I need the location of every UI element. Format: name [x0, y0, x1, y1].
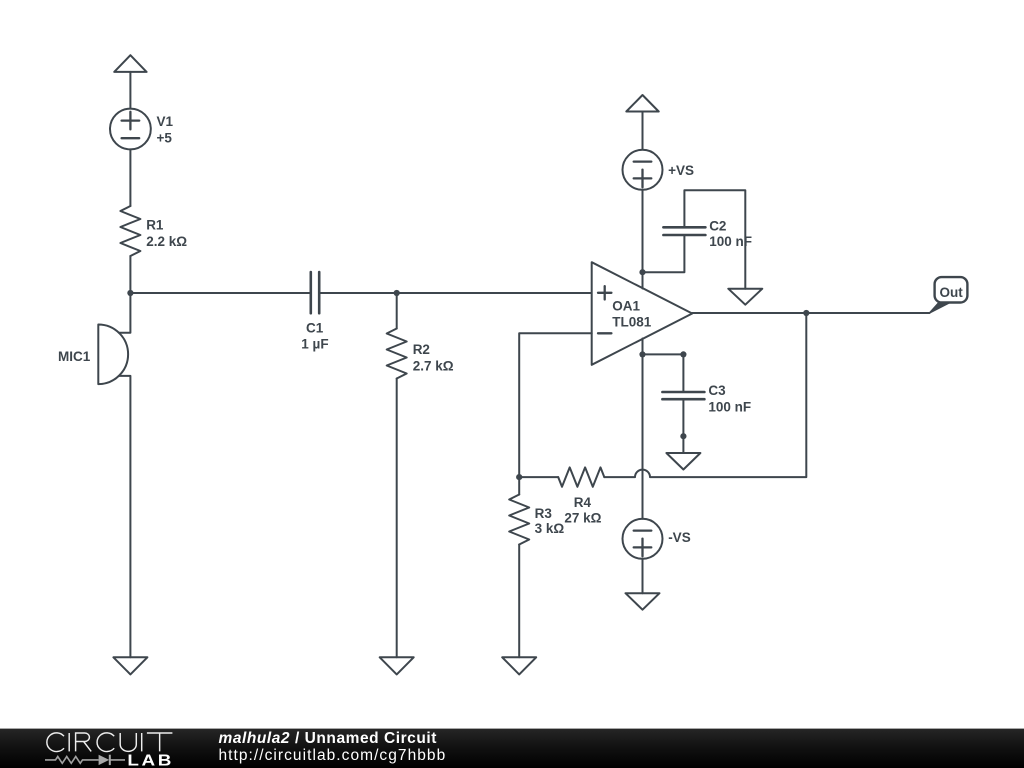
wire mic top: [119, 293, 131, 333]
node C3 top: [680, 351, 686, 357]
logo diode: [99, 755, 110, 765]
svg-text:malhula2 / Unnamed Circuit: malhula2 / Unnamed Circuit: [219, 730, 437, 747]
svg-text:V1: V1: [157, 114, 174, 129]
svg-text:+VS: +VS: [668, 163, 694, 178]
svg-text:R3: R3: [535, 506, 553, 521]
wire inverting input: [519, 333, 592, 477]
svg-text:C3: C3: [708, 383, 726, 398]
out flag box: [935, 277, 968, 302]
out flag tail: [930, 303, 951, 314]
ground R2: [380, 657, 414, 674]
wire: [129, 72, 131, 109]
wire R2 lead: [396, 293, 398, 329]
svg-text:http://circuitlab.com/cg7hbbb: http://circuitlab.com/cg7hbbb: [219, 747, 447, 764]
svg-text:R2: R2: [413, 342, 430, 357]
logo CIRCUIT: [47, 733, 173, 752]
wire C3 branch: [643, 354, 684, 392]
wire R3 top lead: [518, 477, 520, 494]
svg-text:TL081: TL081: [612, 315, 652, 330]
wire: [129, 149, 131, 206]
ground -VS: [626, 593, 660, 610]
svg-text:+5: +5: [157, 130, 173, 145]
power flag arrow V1 top: [114, 55, 146, 72]
wire op-amp to -VS: [642, 339, 644, 519]
svg-text:MIC1: MIC1: [58, 349, 91, 364]
svg-text:100 nF: 100 nF: [708, 399, 751, 414]
op-amp OA1: [592, 262, 693, 365]
svg-text:3 kΩ: 3 kΩ: [535, 521, 565, 536]
svg-text:C2: C2: [709, 218, 726, 233]
wire node A horizontal: [130, 292, 310, 294]
wire: [396, 379, 398, 658]
wire +VS to op-amp: [642, 190, 644, 289]
svg-text:C1: C1: [306, 321, 324, 336]
resistor R4: [558, 467, 604, 486]
wire: [319, 292, 592, 294]
ground R3: [502, 657, 536, 674]
wire C2 to ground: [684, 190, 745, 288]
voltage source +VS: [623, 150, 663, 190]
svg-text:100 nF: 100 nF: [709, 234, 752, 249]
resistor R3: [509, 495, 529, 545]
resistor R2: [387, 329, 407, 379]
svg-text:2.2 kΩ: 2.2 kΩ: [146, 234, 187, 249]
wire C3 to ground: [682, 399, 684, 453]
power flag arrow +VS: [626, 95, 658, 112]
svg-text:OA1: OA1: [612, 298, 640, 313]
wire: [518, 545, 520, 658]
logo squiggle resistor: [45, 757, 125, 764]
logo LAB: [127, 751, 174, 768]
svg-text:Out: Out: [940, 285, 964, 300]
svg-text:27 kΩ: 27 kΩ: [564, 511, 601, 526]
ground MIC1: [113, 657, 147, 674]
ground C2: [728, 289, 762, 305]
svg-text:LAB: LAB: [127, 751, 174, 768]
voltage source V1: [110, 109, 151, 150]
voltage source -VS: [623, 519, 663, 559]
node +VS/C2 junction: [639, 269, 645, 275]
microphone MIC1: [98, 325, 128, 385]
node V-/C3 junction: [639, 351, 645, 357]
node C3 bottom: [680, 433, 686, 439]
svg-text:R4: R4: [574, 495, 592, 510]
wire R4 left lead: [519, 476, 558, 478]
wire C2 branch: [643, 235, 685, 272]
wire: [129, 256, 131, 293]
wire output: [692, 312, 929, 314]
node C1/R2 junction: [394, 290, 400, 296]
wire mic bottom: [119, 376, 131, 657]
capacitor C1: [309, 272, 312, 313]
svg-text:R1: R1: [146, 218, 164, 233]
junction node dots: [127, 269, 809, 480]
svg-text:-VS: -VS: [668, 530, 691, 545]
wire: [642, 112, 644, 150]
node R3/R4 junction: [516, 474, 522, 480]
node output junction: [803, 310, 809, 316]
wire -VS to ground: [642, 559, 644, 593]
wire with hop over power wire: [604, 313, 806, 477]
capacitor C3: [662, 391, 704, 394]
node R1/MIC junction: [127, 290, 133, 296]
capacitor C2: [663, 234, 705, 237]
resistor R1: [120, 206, 140, 256]
svg-text:1 µF: 1 µF: [301, 337, 328, 352]
ground C3: [666, 453, 700, 470]
svg-text:2.7 kΩ: 2.7 kΩ: [413, 358, 454, 373]
